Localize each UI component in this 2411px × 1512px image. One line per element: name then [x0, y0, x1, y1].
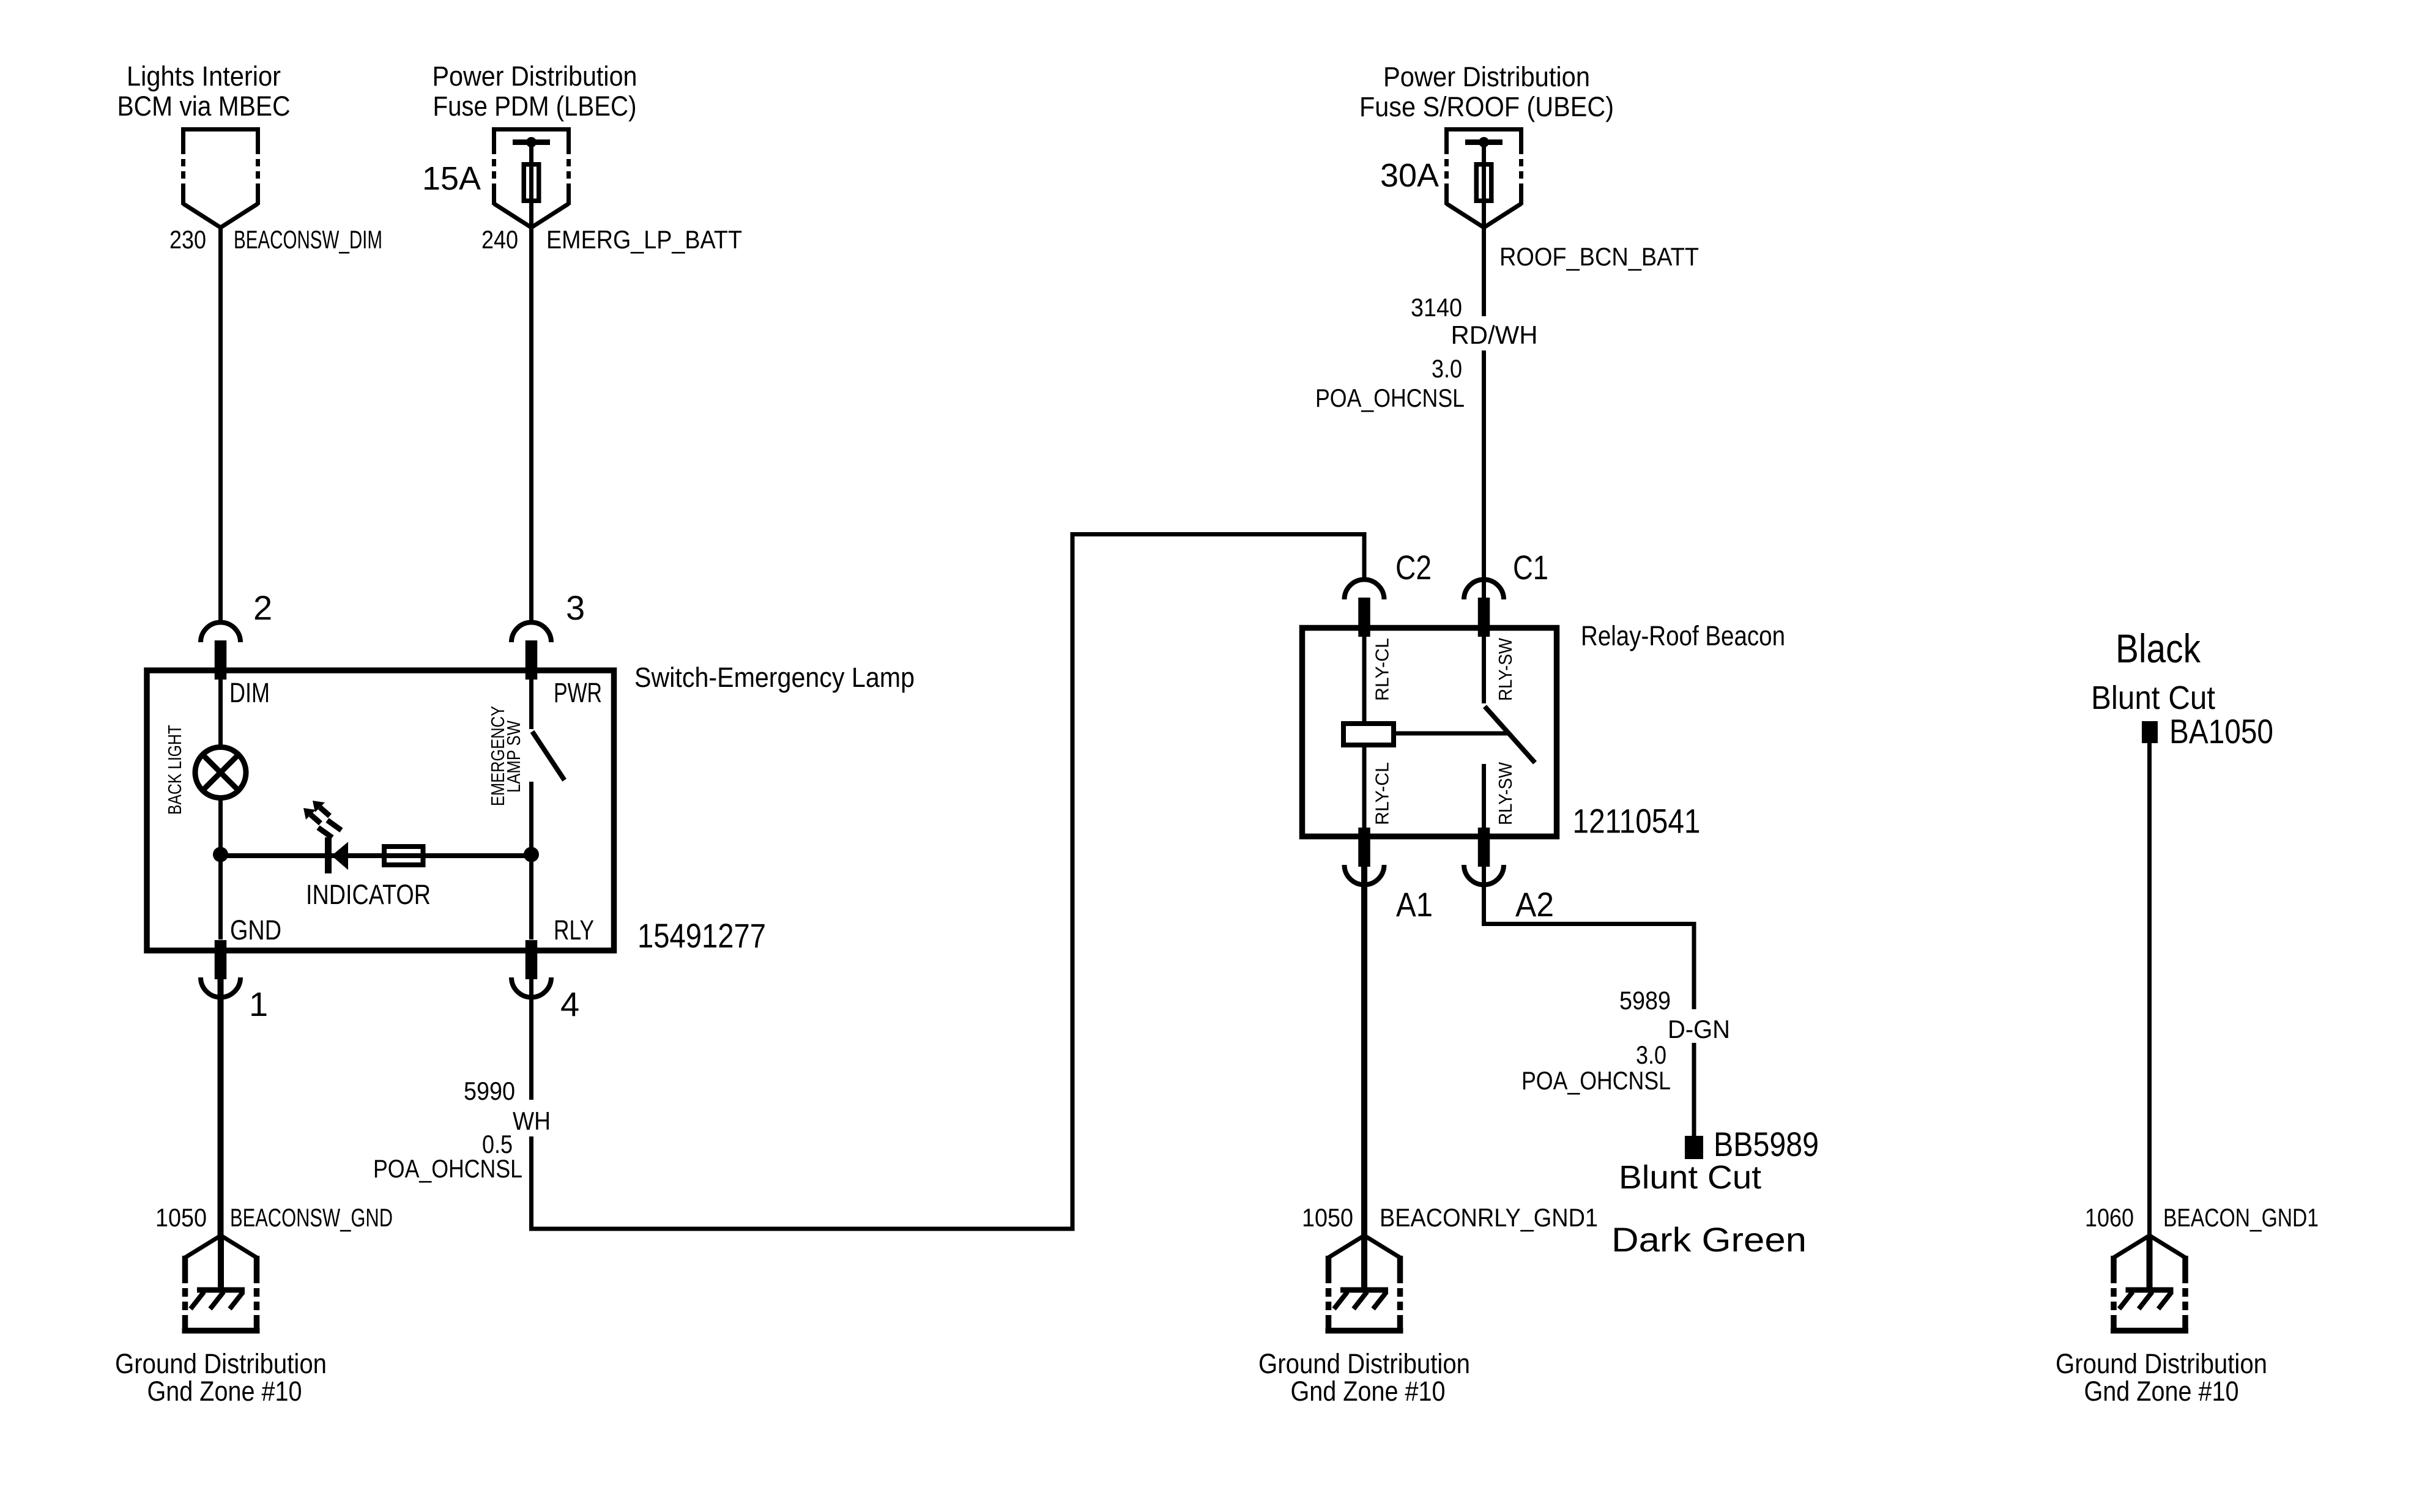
svg-text:RLY-CL: RLY-CL	[1372, 762, 1393, 825]
svg-text:Ground Distribution: Ground Distribution	[2056, 1348, 2267, 1379]
svg-text:RLY-SW: RLY-SW	[1495, 637, 1516, 701]
svg-text:RLY-SW: RLY-SW	[1495, 762, 1516, 825]
wire 3140 RD/WH vertical	[1482, 228, 1486, 602]
connector pin 3 of switch	[511, 623, 551, 680]
node: Power Distribution Fuse S/ROOF header	[1359, 61, 1614, 122]
svg-text:POA_OHCNSL: POA_OHCNSL	[1521, 1066, 1671, 1095]
wire coil to blade	[1394, 732, 1509, 736]
wire indicator branch horizontal	[221, 853, 532, 858]
svg-text:BACK LIGHT: BACK LIGHT	[164, 725, 185, 815]
svg-text:Dark Green: Dark Green	[1611, 1220, 1807, 1259]
relay switch RLY-SW blade	[1484, 631, 1536, 834]
fuse 30A ROOF BCN	[1465, 137, 1503, 228]
connector pin C1 of relay	[1464, 580, 1504, 637]
ground G1050 left symbol	[182, 1236, 260, 1331]
svg-text:DIM: DIM	[229, 677, 270, 708]
ground G1050 relay symbol	[1326, 1236, 1403, 1331]
svg-text:Lights Interior: Lights Interior	[127, 61, 281, 92]
svg-text:1050: 1050	[1302, 1203, 1353, 1232]
connector Fuse S/ROOF connector body	[1444, 127, 1523, 228]
svg-text:Blunt Cut: Blunt Cut	[1619, 1159, 1761, 1196]
svg-text:Power Distribution: Power Distribution	[1383, 61, 1590, 92]
connector pin 2 of switch	[201, 623, 240, 680]
switch EMERGENCY LAMP SW blade	[532, 673, 565, 854]
svg-text:230: 230	[169, 225, 206, 254]
svg-text:Ground Distribution: Ground Distribution	[1258, 1348, 1470, 1379]
svg-text:1050: 1050	[155, 1203, 207, 1232]
wire long route pin4 to relay C2	[532, 535, 1365, 1229]
blunt cut terminal BA1050	[2142, 721, 2158, 743]
wire RLY to pin 4	[529, 854, 533, 939]
svg-text:POA_OHCNSL: POA_OHCNSL	[1315, 384, 1465, 412]
svg-text:Power Distribution: Power Distribution	[433, 61, 637, 92]
svg-text:4: 4	[560, 985, 579, 1023]
wire 5989 D-GN route from A2	[1484, 864, 1695, 1136]
svg-text:BB5989: BB5989	[1714, 1125, 1819, 1163]
svg-text:Ground Distribution: Ground Distribution	[115, 1348, 327, 1379]
svg-text:3.0: 3.0	[1432, 354, 1462, 383]
label Ground Distribution right	[2056, 1348, 2267, 1407]
svg-text:C2: C2	[1395, 548, 1432, 587]
blunt cut terminal BB5989	[1685, 1136, 1703, 1159]
wire BEACONSW_GND vertical	[218, 977, 224, 1236]
resistor in indicator branch	[384, 847, 423, 865]
wire lamp to GND pin	[218, 798, 223, 939]
connector pin 4 of switch	[511, 940, 551, 998]
label Ground Distribution left	[115, 1348, 327, 1407]
svg-text:5989: 5989	[1619, 986, 1671, 1015]
svg-text:3140: 3140	[1411, 293, 1462, 322]
svg-text:3: 3	[566, 588, 585, 627]
connector pin 1 of switch	[201, 940, 240, 998]
node: Power Distribution Fuse PDM header	[433, 61, 637, 122]
svg-text:POA_OHCNSL: POA_OHCNSL	[373, 1154, 522, 1183]
label Ground Distribution relay	[1258, 1348, 1470, 1407]
svg-text:A1: A1	[1396, 885, 1433, 924]
junction node left	[213, 847, 228, 862]
svg-text:ROOF_BCN_BATT: ROOF_BCN_BATT	[1499, 242, 1699, 271]
svg-text:EMERG_LP_BATT: EMERG_LP_BATT	[546, 225, 742, 254]
svg-text:Fuse PDM (LBEC): Fuse PDM (LBEC)	[433, 91, 637, 122]
svg-text:15491277: 15491277	[637, 916, 766, 955]
connector Fuse PDM connector body	[492, 127, 571, 228]
svg-text:2: 2	[253, 588, 272, 627]
svg-text:BA1050: BA1050	[2169, 712, 2273, 750]
svg-text:C1: C1	[1513, 548, 1548, 587]
svg-text:Gnd Zone #10: Gnd Zone #10	[2084, 1376, 2239, 1407]
svg-text:BEACONSW_DIM: BEACONSW_DIM	[234, 225, 382, 254]
wire BEACONSW_DIM vertical	[218, 228, 223, 624]
svg-text:RLY-CL: RLY-CL	[1372, 638, 1393, 701]
svg-text:Black: Black	[2116, 626, 2201, 671]
svg-text:Blunt Cut: Blunt Cut	[2091, 680, 2215, 716]
lamp BACK LIGHT	[195, 747, 246, 798]
svg-text:1060: 1060	[2085, 1203, 2134, 1232]
relay box outline	[1302, 628, 1557, 837]
connector pin A1 of relay	[1345, 828, 1384, 885]
svg-text:GND: GND	[230, 914, 281, 946]
svg-text:Gnd Zone #10: Gnd Zone #10	[1291, 1376, 1446, 1407]
svg-text:RLY: RLY	[554, 914, 594, 946]
wire relay coil RLY-CL	[1362, 631, 1367, 834]
relay coil	[1343, 724, 1394, 745]
svg-text:BEACONRLY_GND1: BEACONRLY_GND1	[1380, 1203, 1598, 1232]
svg-text:INDICATOR: INDICATOR	[306, 879, 431, 910]
svg-text:30A: 30A	[1380, 157, 1439, 194]
svg-text:PWR: PWR	[554, 677, 602, 708]
svg-text:3.0: 3.0	[1636, 1040, 1666, 1069]
svg-text:D-GN: D-GN	[1668, 1015, 1730, 1043]
junction node right	[524, 847, 539, 862]
svg-text:Fuse S/ROOF (UBEC): Fuse S/ROOF (UBEC)	[1359, 91, 1614, 122]
connector from Lights Interior BCM connector body	[181, 127, 260, 228]
svg-text:BCM via MBEC: BCM via MBEC	[117, 91, 291, 122]
svg-text:240: 240	[481, 225, 518, 254]
LED INDICATOR	[303, 801, 348, 873]
wire BEACON_GND1 vertical	[2147, 743, 2152, 1236]
connector pin A2 of relay	[1464, 828, 1504, 885]
svg-text:5990: 5990	[464, 1077, 515, 1105]
svg-text:15A: 15A	[422, 160, 481, 197]
fuse 15A EMERG LP	[513, 137, 550, 228]
wire EMERG_LP_BATT vertical	[529, 228, 533, 624]
svg-text:1: 1	[249, 985, 268, 1023]
wire BEACONRLY_GND1 vertical	[1361, 864, 1367, 1236]
svg-text:Switch-Emergency Lamp: Switch-Emergency Lamp	[634, 662, 915, 693]
connector pin C2 of relay	[1345, 580, 1384, 637]
svg-text:BEACON_GND1: BEACON_GND1	[2163, 1203, 2319, 1232]
wire DIM to back light lamp	[218, 673, 223, 747]
svg-text:Gnd Zone #10: Gnd Zone #10	[147, 1376, 302, 1407]
wire 5990 WH from pin 4	[529, 977, 533, 1100]
ground G1060 right symbol	[2111, 1236, 2188, 1331]
node: Lights Interior BCM via MBEC header	[117, 61, 291, 122]
svg-text:12110541: 12110541	[1573, 802, 1701, 840]
svg-text:WH: WH	[513, 1106, 551, 1135]
switch box Switch-Emergency Lamp outline	[147, 670, 614, 951]
svg-text:A2: A2	[1515, 885, 1554, 924]
svg-text:BEACONSW_GND: BEACONSW_GND	[230, 1203, 393, 1232]
svg-text:Relay-Roof Beacon: Relay-Roof Beacon	[1581, 620, 1785, 651]
svg-text:LAMP SW: LAMP SW	[503, 720, 524, 793]
svg-text:RD/WH: RD/WH	[1451, 321, 1538, 349]
